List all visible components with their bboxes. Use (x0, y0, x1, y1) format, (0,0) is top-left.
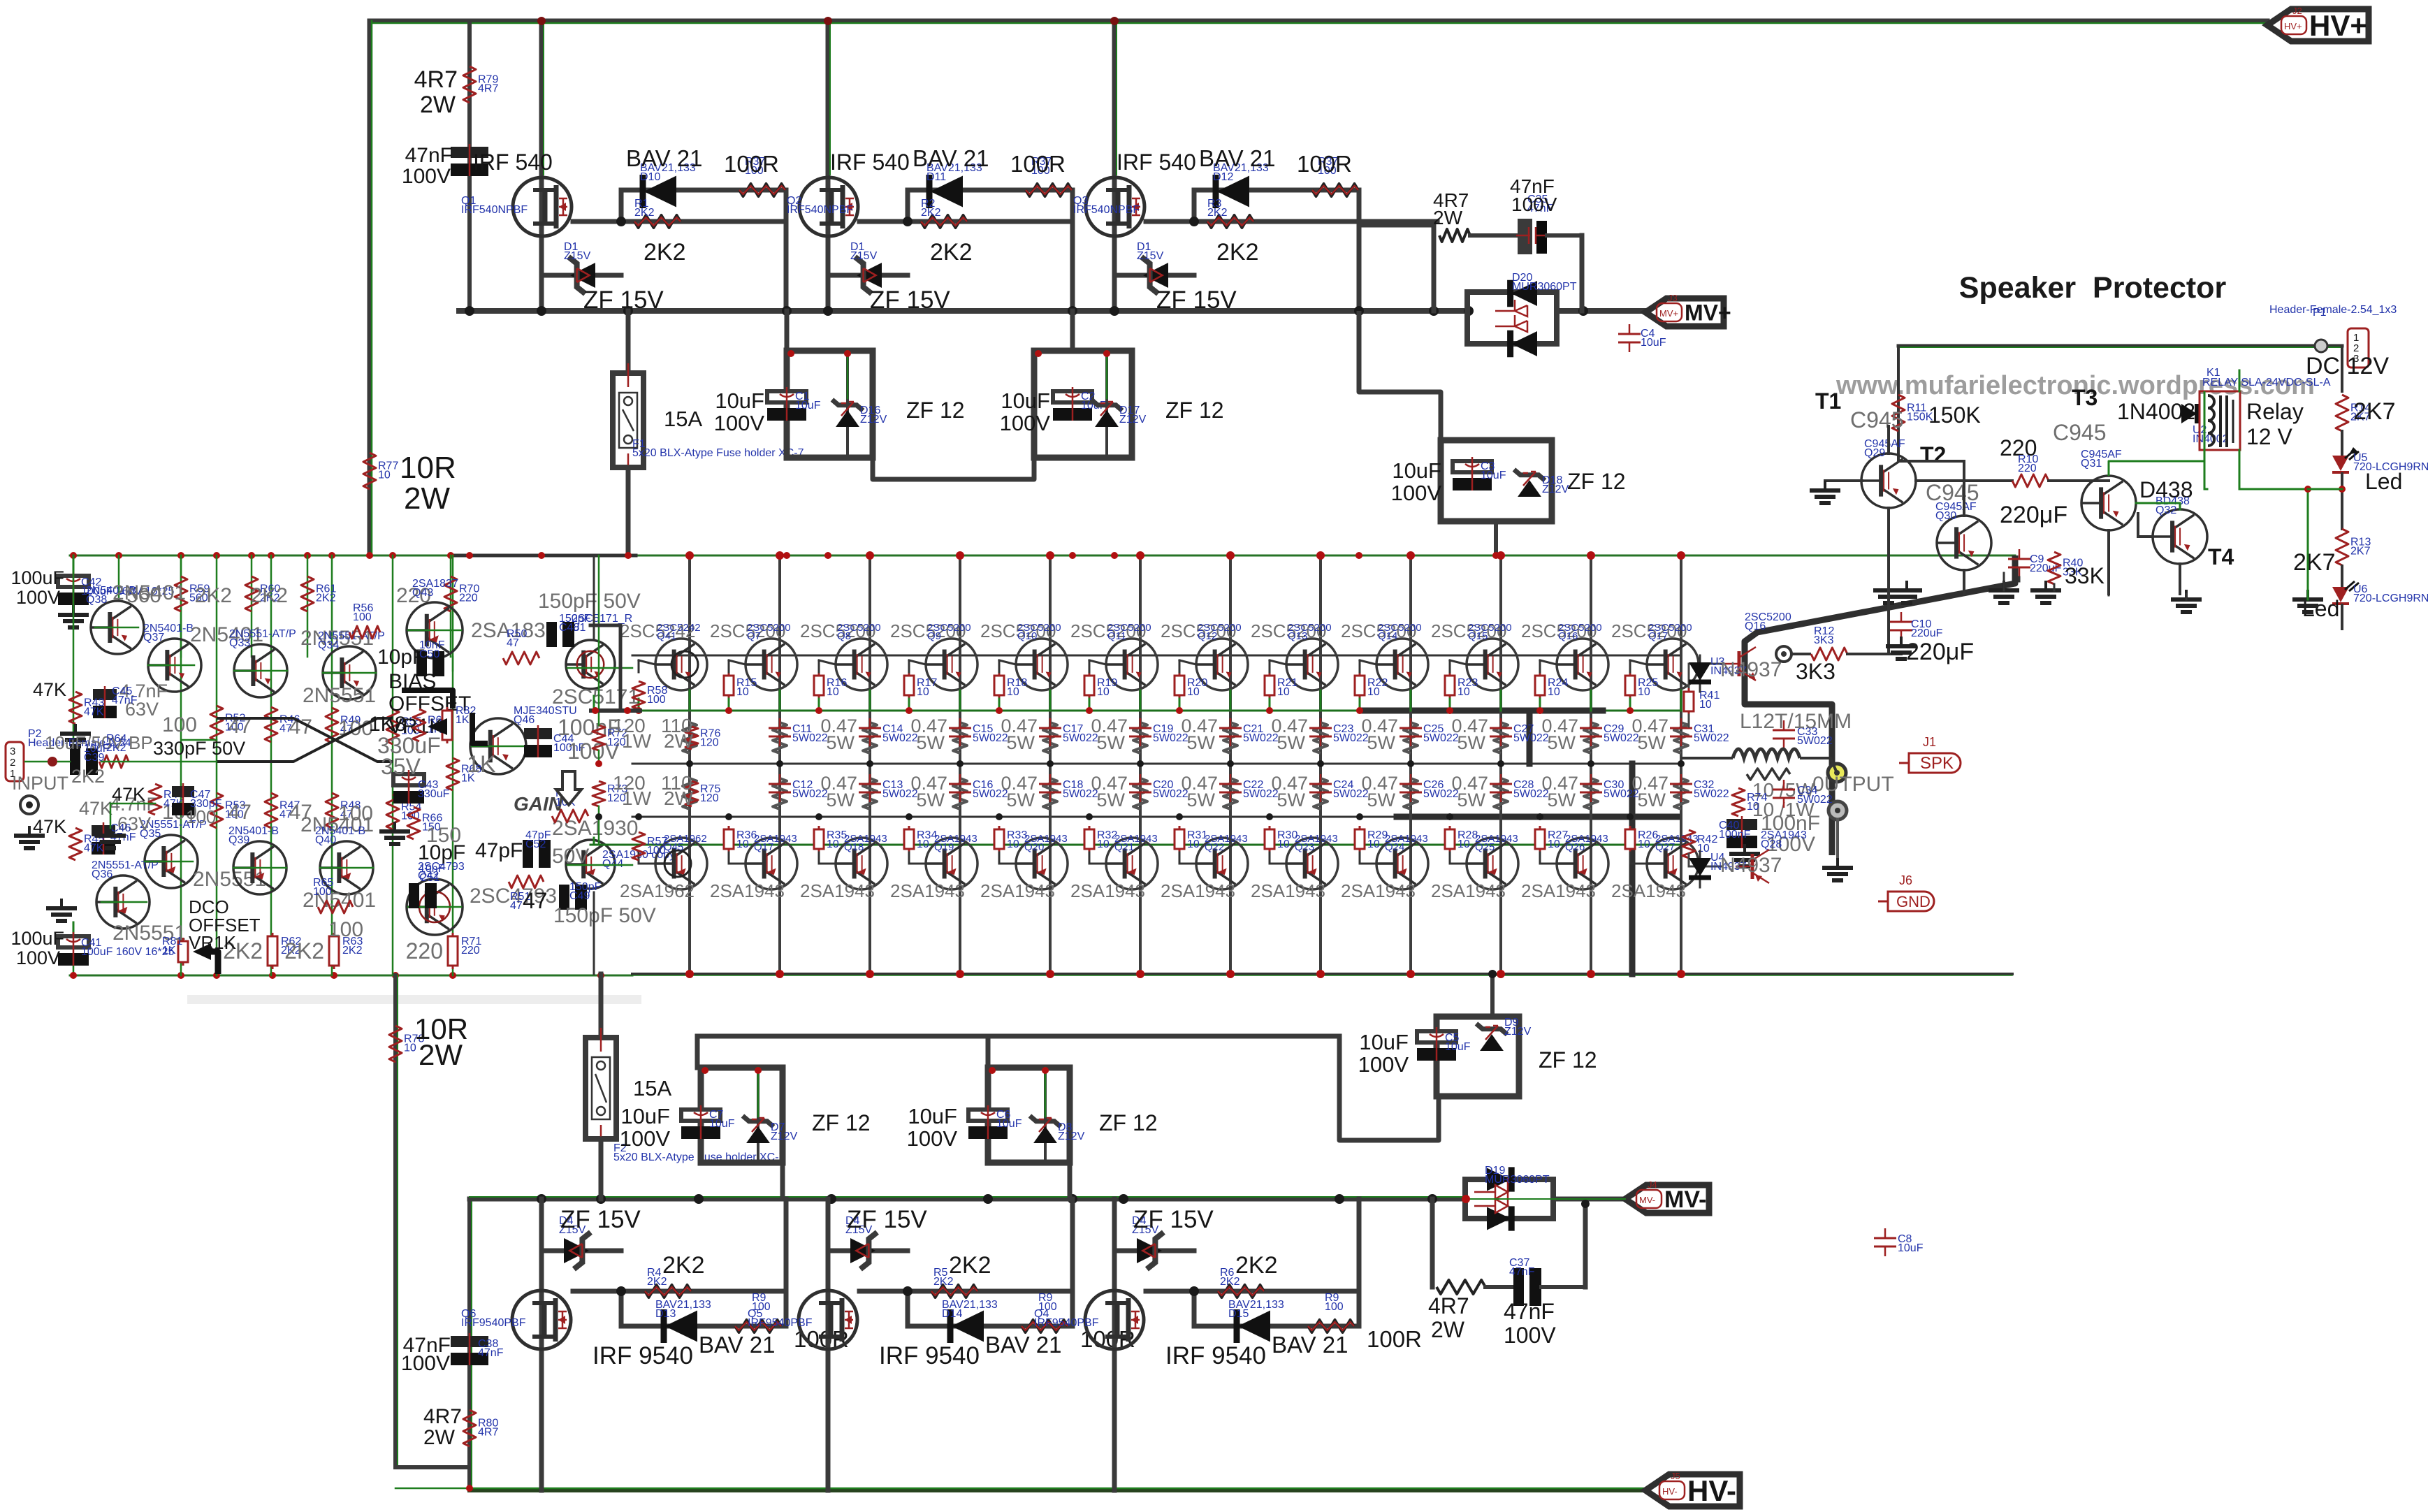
svg-text:Z15V: Z15V (564, 250, 591, 262)
svg-text:IRF 9540: IRF 9540 (879, 1342, 980, 1369)
wire T2 links (1887, 426, 1890, 453)
input header P2 (6, 742, 24, 781)
capacitor C45 4.7nF (93, 689, 117, 700)
wire array thick output bus (1361, 708, 1603, 714)
svg-text:ZF 15V: ZF 15V (560, 1206, 641, 1233)
wire gate chain to RC2 (1359, 223, 1434, 228)
svg-text:2W: 2W (664, 787, 694, 809)
svg-text:10uF: 10uF (1001, 388, 1050, 413)
transistor Q25 2SA1943 (1467, 838, 1518, 889)
svg-text:100: 100 (186, 806, 216, 827)
svg-text:Q9: Q9 (927, 630, 941, 642)
svg-text:10uF: 10uF (1359, 1030, 1409, 1054)
resistor R55 100 (386, 709, 399, 744)
svg-text:D12: D12 (1213, 171, 1233, 183)
zener diode D16 ZF 12 (846, 351, 849, 458)
svg-text:HV-: HV- (1687, 1474, 1736, 1507)
transistor Q3 IRF 540 (1112, 21, 1117, 311)
svg-text:1W: 1W (622, 787, 652, 809)
svg-text:220uF: 220uF (1911, 627, 1943, 639)
svg-text:47: 47 (510, 900, 523, 912)
svg-text:10uF: 10uF (715, 388, 764, 413)
svg-text:Z12V: Z12V (1504, 1026, 1532, 1038)
svg-text:2SA1943: 2SA1943 (710, 880, 785, 901)
ground below C42 (72, 605, 75, 615)
svg-text:Q17: Q17 (754, 841, 773, 853)
svg-text:47nF: 47nF (112, 695, 138, 706)
svg-text:220: 220 (406, 938, 443, 964)
resistor R72 120 1W (593, 725, 605, 750)
svg-text:K1: K1 (2207, 367, 2220, 379)
wire Q6 gate loop bottom (573, 1289, 786, 1294)
svg-text:IRF9540PBF: IRF9540PBF (748, 1317, 813, 1329)
resistor R46 47 (265, 707, 277, 742)
svg-text:ZF 12: ZF 12 (1099, 1110, 1158, 1135)
diode D19 MUR3060PT bottom (1465, 1179, 1553, 1219)
resistor R53 100 (210, 793, 223, 828)
resistor R57 100 (632, 832, 645, 860)
svg-text:5W: 5W (1367, 732, 1396, 753)
svg-text:2SA1943: 2SA1943 (1611, 880, 1686, 901)
resistor R11 150K (1892, 395, 1905, 431)
svg-text:2: 2 (10, 757, 15, 769)
svg-text:5W: 5W (1638, 732, 1666, 753)
svg-text:100R: 100R (1297, 151, 1352, 177)
feedback arrow (556, 771, 581, 805)
svg-text:2SA1943: 2SA1943 (1431, 880, 1506, 901)
svg-text:100V: 100V (16, 587, 60, 608)
zener diode ZF 15V (1114, 273, 1194, 278)
svg-text:10: 10 (1007, 838, 1019, 850)
svg-text:330pF 50V: 330pF 50V (153, 738, 245, 759)
wire protector top rail (1898, 344, 2342, 348)
svg-text:220: 220 (461, 945, 480, 957)
svg-text:100: 100 (647, 694, 666, 706)
resistor R67 1K8 (413, 709, 426, 741)
svg-text:5W: 5W (1187, 790, 1216, 810)
svg-text:Q24: Q24 (1385, 841, 1404, 853)
wire Q1 gate loop (573, 219, 786, 224)
wire output column 4 (959, 555, 961, 974)
svg-text:2K2: 2K2 (251, 584, 288, 607)
svg-text:Relay: Relay (2246, 399, 2304, 424)
svg-text:5W022: 5W022 (1797, 794, 1833, 806)
wire pair3 to rail (1494, 521, 1498, 555)
resistor R5 2K2 bottom (931, 1285, 977, 1297)
resistor R19 10 (base) (1089, 672, 1091, 699)
wire diff pair cross (217, 718, 393, 762)
resistor 100R (1312, 184, 1358, 196)
svg-text:HV+: HV+ (2284, 21, 2302, 31)
resistor R34 10 (PNP base) (908, 826, 910, 852)
svg-text:220: 220 (2018, 463, 2037, 474)
transistor Q17 2SC5200 (1647, 639, 1699, 690)
svg-text:RELAY SLA-24VDC-SL-A: RELAY SLA-24VDC-SL-A (2202, 377, 2331, 388)
fuse F1 15A (626, 311, 631, 373)
transistor Q43 2SA1837 (407, 602, 463, 658)
svg-text:10: 10 (1277, 838, 1290, 850)
resistor R75 110 2W (685, 781, 698, 806)
svg-text:Z12V: Z12V (771, 1131, 798, 1142)
svg-text:Q28: Q28 (1761, 838, 1782, 850)
svg-text:Q16: Q16 (1558, 630, 1578, 642)
input pad protector (1776, 646, 1791, 662)
svg-text:Z12V: Z12V (1058, 1131, 1085, 1142)
svg-text:120: 120 (700, 792, 719, 804)
svg-text:N4937: N4937 (1720, 658, 1782, 681)
transistor Q2 IRF 540 (826, 21, 831, 311)
svg-text:2W: 2W (420, 92, 456, 118)
svg-text:Q38: Q38 (86, 594, 107, 606)
svg-text:5W: 5W (827, 732, 855, 753)
resistor 0.47 5W lower (1584, 778, 1598, 809)
svg-text:Q46: Q46 (514, 714, 535, 726)
transistor Q13 2SC5200 (1286, 639, 1338, 690)
transistor Q16 2SC5200 (1557, 639, 1608, 690)
svg-text:Q27: Q27 (1655, 841, 1675, 853)
svg-text:150K: 150K (1928, 402, 1981, 428)
resistor R52 100 (210, 706, 223, 741)
resistor R28 10 (PNP base) (1449, 826, 1451, 852)
svg-text:10: 10 (1097, 686, 1110, 698)
svg-text:1W: 1W (622, 730, 652, 752)
resistor R41 10 (1689, 663, 1722, 665)
resistor 0.47 5W lower (1223, 778, 1237, 809)
svg-text:BAV 21: BAV 21 (913, 145, 989, 171)
svg-text:ZF 12: ZF 12 (906, 398, 965, 423)
svg-text:MUR3060PT: MUR3060PT (1485, 1174, 1550, 1186)
svg-text:5W: 5W (1548, 790, 1576, 810)
svg-text:4R7: 4R7 (414, 66, 458, 93)
wire T3 links (1963, 570, 1965, 594)
svg-text:5W: 5W (1007, 790, 1035, 810)
svg-text:5W: 5W (827, 790, 855, 810)
svg-text:Q21: Q21 (1114, 841, 1134, 853)
svg-text:Q8: Q8 (837, 630, 851, 642)
resistor 0.47 5W lower (773, 778, 787, 809)
svg-text:100: 100 (162, 713, 197, 736)
ground T2 base (1824, 481, 1826, 490)
resistor R12 3K3 (1791, 653, 1810, 655)
wire output column 11 (1590, 555, 1592, 974)
svg-text:L12T/15MM: L12T/15MM (1740, 710, 1852, 733)
header P1 DC 12V (2315, 340, 2327, 352)
svg-text:IRF 9540: IRF 9540 (1165, 1342, 1266, 1369)
svg-text:100V: 100V (16, 947, 60, 968)
svg-text:10: 10 (1457, 838, 1470, 850)
svg-text:100uF: 100uF (10, 928, 64, 949)
wire output column 6 (1139, 555, 1142, 974)
svg-text:J1: J1 (1923, 735, 1936, 749)
svg-text:47K: 47K (84, 843, 104, 855)
svg-text:47: 47 (523, 888, 548, 913)
resistor R70 220 (450, 555, 452, 657)
transistor Q30 C945 (1937, 516, 1991, 570)
resistor R20 10 (base) (1179, 672, 1181, 699)
svg-text:100: 100 (313, 886, 332, 898)
svg-text:2K2: 2K2 (71, 766, 105, 787)
svg-text:15A: 15A (633, 1076, 671, 1100)
svg-text:100uF 160V 16*25: 100uF 160V 16*25 (81, 946, 175, 958)
svg-text:Q26: Q26 (1565, 841, 1585, 853)
resistor R17 10 (base) (908, 672, 910, 699)
svg-text:5W: 5W (1367, 790, 1396, 810)
svg-text:Q43: Q43 (412, 587, 433, 599)
svg-text:10uF: 10uF (908, 1104, 957, 1128)
diode D20 MUR3060PT (1467, 292, 1557, 344)
svg-text:Q32: Q32 (2156, 504, 2176, 516)
svg-text:100V: 100V (620, 1126, 671, 1151)
transistor Q42 2SC4793 (407, 879, 463, 935)
resistor R2 2K2 (921, 215, 967, 228)
svg-text:5W: 5W (1007, 732, 1035, 753)
transistor Q26 2SA1943 (1557, 838, 1608, 889)
resistor 0.47 5W upper (1404, 722, 1418, 753)
svg-text:10pF: 10pF (418, 841, 465, 864)
svg-text:2W: 2W (664, 730, 694, 752)
svg-text:2W: 2W (1431, 1317, 1465, 1342)
zener diode ZF 15V bottom (541, 1249, 621, 1253)
svg-text:2SA1943: 2SA1943 (1341, 880, 1416, 901)
capacitor C7 10uF 100V bottom (701, 1068, 783, 1163)
transistor Q5 IRF 9540 (826, 1199, 831, 1490)
resistor R15 10 (base) (728, 672, 730, 699)
svg-text:47K: 47K (84, 706, 104, 718)
svg-text:Q17: Q17 (1648, 630, 1668, 642)
resistor R48 47 (326, 793, 338, 828)
svg-text:10uF: 10uF (1481, 470, 1506, 481)
svg-text:2K2: 2K2 (284, 938, 324, 964)
svg-text:J3: J3 (1668, 293, 1678, 303)
wire output column 8 (1319, 555, 1322, 974)
terminal flag MV+ (1645, 298, 1724, 326)
svg-text:MV+: MV+ (1659, 308, 1678, 319)
svg-text:C48: C48 (559, 622, 579, 634)
wire Q2 gate loop (859, 219, 1073, 224)
svg-text:5x20 BLX-Atype Fuse holder XC-: 5x20 BLX-Atype Fuse holder XC-7 (632, 447, 804, 459)
svg-text:IRF9540PBF: IRF9540PBF (1034, 1317, 1099, 1329)
resistor R14 2K7 (2336, 395, 2348, 431)
svg-text:220μF: 220μF (2000, 502, 2067, 528)
led U6 (2332, 587, 2349, 602)
svg-text:150pF 50V: 150pF 50V (538, 590, 641, 613)
resistor R43 47K (69, 692, 82, 724)
capacitor C47 330pF (172, 786, 194, 797)
svg-text:330uF: 330uF (418, 788, 450, 800)
svg-text:100V: 100V (714, 411, 765, 435)
ground input (28, 826, 31, 836)
transistor Q33 2N5551 (234, 644, 287, 697)
svg-text:Q23: Q23 (1295, 841, 1314, 853)
resistor R50 47 (503, 652, 539, 664)
resistor 100R (739, 184, 785, 196)
resistor R3 2K2 (1207, 215, 1253, 228)
svg-text:10: 10 (917, 838, 929, 850)
transistor U1 2SC5171 (566, 640, 615, 689)
wire bottom-left corner (395, 1465, 470, 1469)
svg-text:10: 10 (917, 686, 929, 698)
capacitor C42 100uF 100V (73, 555, 75, 602)
svg-text:GND: GND (1896, 893, 1931, 910)
zener diode ZF 15V bottom (1114, 1249, 1194, 1253)
svg-text:100V: 100V (1358, 1052, 1409, 1077)
svg-text:D11: D11 (926, 171, 946, 183)
zener diode D17 ZF 12 (1105, 351, 1108, 458)
svg-text:Q18: Q18 (844, 841, 864, 853)
resistor R71 220 (452, 933, 454, 969)
svg-text:5W022: 5W022 (1797, 735, 1833, 747)
svg-text:2K2: 2K2 (1235, 1252, 1278, 1279)
transistor Q24 2SA1943 (1376, 838, 1428, 889)
wire gate chain to RC (1359, 219, 1437, 224)
svg-text:2SA1962: 2SA1962 (620, 880, 695, 901)
svg-text:Q36: Q36 (92, 868, 112, 880)
svg-text:Q16: Q16 (1745, 620, 1766, 632)
wire HV+ top rail (370, 19, 2267, 24)
terminal flag HV+ (2267, 9, 2369, 41)
svg-text:3: 3 (10, 746, 15, 757)
wire relay drops (2204, 450, 2206, 489)
resistor R79 4R7 2W (463, 66, 476, 103)
capacitor C40 100nF (1727, 819, 1757, 830)
svg-text:Q7: Q7 (747, 630, 761, 642)
svg-text:ZF 12: ZF 12 (1539, 1047, 1597, 1073)
capacitor C4 10uF (1618, 333, 1641, 335)
svg-text:ZF 12: ZF 12 (1165, 398, 1224, 423)
transistor Q16 2SC5200 driver (1722, 647, 1756, 681)
zener diode ZF 15V (828, 273, 908, 278)
svg-text:Z15V: Z15V (1137, 250, 1164, 262)
resistor 0.47 5W upper (773, 722, 787, 753)
resistor 0.47 5W lower (1404, 778, 1418, 809)
svg-text:Q31: Q31 (2081, 458, 2102, 470)
resistor R32 10 (PNP base) (1089, 826, 1091, 852)
svg-text:IRF 540: IRF 540 (830, 150, 910, 175)
resistor 4R7 2W bottom right (1437, 1280, 1485, 1294)
wire output column 7 (1229, 555, 1232, 974)
trimmer arrow DCO (193, 943, 211, 960)
svg-text:4R7: 4R7 (478, 82, 498, 94)
capacitor C8 10uF (1874, 1237, 1896, 1240)
resistor R26 10 (PNP base) (1629, 826, 1631, 852)
resistor R47 47 (265, 793, 277, 828)
ground below C43 (393, 822, 396, 831)
svg-text:Q10: Q10 (1017, 630, 1037, 642)
wire bottom-right RC (1430, 1199, 1435, 1287)
svg-text:Q22: Q22 (1205, 841, 1224, 853)
svg-text:HV+: HV+ (2309, 9, 2367, 42)
resistor 0.47 5W lower (863, 778, 877, 809)
resistor R61 2K2 (307, 555, 309, 657)
svg-text:100V: 100V (907, 1126, 958, 1151)
svg-text:10uF: 10uF (795, 400, 821, 412)
svg-text:100R: 100R (724, 151, 779, 177)
svg-text:Z12V: Z12V (860, 414, 887, 426)
svg-text:Led: Led (2365, 469, 2402, 494)
resistor 0.47 5W lower (1494, 778, 1508, 809)
transistor Q45 2SA1962 (655, 838, 707, 889)
wire input stage mesh verticals (216, 555, 218, 975)
svg-text:ZF 15V: ZF 15V (847, 1206, 927, 1233)
svg-text:10uF: 10uF (1392, 458, 1441, 483)
ground output network (1743, 844, 1746, 854)
ground below R43 (74, 724, 77, 734)
zener diode D7 ZF 12 bottom (746, 1126, 770, 1143)
svg-text:120: 120 (700, 736, 719, 748)
transistor Q29 C945 T2 (1861, 453, 1916, 508)
svg-text:100V: 100V (401, 1352, 450, 1375)
svg-text:INPUT: INPUT (12, 773, 68, 794)
resistor 0.47 5W lower (1043, 778, 1057, 809)
resistor R49 47 (326, 708, 338, 743)
resistor R54 100 (386, 794, 399, 829)
svg-text:Q15: Q15 (1468, 630, 1488, 642)
svg-text:10: 10 (1187, 686, 1200, 698)
svg-text:10: 10 (736, 686, 749, 698)
svg-text:D10: D10 (640, 171, 660, 183)
svg-text:2K2: 2K2 (1216, 239, 1259, 266)
transistor Q18 2SA1943 (836, 838, 887, 889)
grounds protector (1905, 581, 1908, 590)
resistor 100R (1026, 184, 1072, 196)
wire protector mid links (2136, 502, 2180, 504)
svg-text:C51: C51 (419, 872, 439, 884)
svg-text:10: 10 (827, 686, 839, 698)
resistor R68 1K (446, 758, 459, 790)
wire vas links (452, 657, 454, 671)
svg-text:5W022: 5W022 (1694, 732, 1729, 744)
wire array rails (632, 655, 1681, 657)
wire output column 5 (1049, 555, 1052, 974)
resistor R42 10 (1682, 830, 1695, 858)
wire pair3 drop (1359, 311, 1441, 440)
capacitor C46 47nF (92, 825, 115, 836)
svg-text:2W: 2W (419, 1038, 463, 1071)
wire driver collector link (590, 624, 620, 627)
transistor Q31 C945 T3 (2081, 476, 2136, 530)
svg-text:MV-: MV- (1639, 1195, 1655, 1205)
resistor R6 2K2 bottom (1218, 1285, 1264, 1297)
svg-text:Q40: Q40 (315, 834, 336, 846)
svg-text:47nF: 47nF (478, 1347, 504, 1359)
capacitor C39 10uF BP (70, 748, 80, 775)
svg-text:J2: J2 (2292, 6, 2302, 16)
svg-text:150pF 50V: 150pF 50V (553, 904, 656, 927)
svg-text:10: 10 (1367, 838, 1380, 850)
wire MV- mid rail (bottom) (470, 1197, 1465, 1202)
svg-text:47nF: 47nF (1509, 1266, 1535, 1278)
svg-text:C945: C945 (2053, 420, 2107, 445)
led U5 (2332, 456, 2349, 471)
transistor Q35 2N5551 (145, 835, 198, 888)
svg-text:IRF 540: IRF 540 (1117, 150, 1196, 175)
resistor R58 10 (base) (638, 699, 640, 711)
transistor Q37 2N5401 (148, 639, 201, 692)
transistor Q17 2SA1943 (746, 838, 797, 889)
flag J1 SPK (1899, 753, 1961, 773)
transistor Q1 IRF 540 (539, 21, 544, 311)
svg-text:100: 100 (647, 845, 666, 857)
svg-text:100R: 100R (1010, 151, 1066, 177)
svg-text:5W: 5W (1097, 790, 1126, 810)
resistor R76 110 2W (685, 727, 698, 749)
wire bottom pairs top link (697, 1034, 1339, 1039)
resistor 100R bottom (735, 1320, 781, 1332)
wire pair3 bottom link (1339, 1036, 1439, 1140)
svg-text:Q20: Q20 (1024, 841, 1044, 853)
resistor R4 2K2 bottom (645, 1285, 691, 1297)
transistor Q28 2SA1943 driver (1736, 850, 1769, 883)
